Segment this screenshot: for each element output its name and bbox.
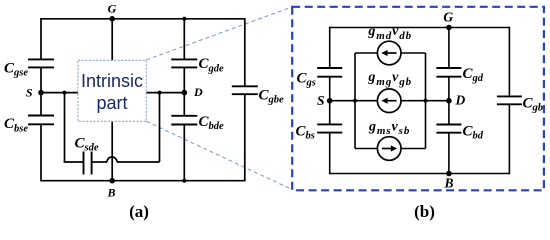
label (b) <box>414 202 435 221</box>
svg-text:(b): (b) <box>414 202 435 221</box>
wire S to box <box>41 92 78 94</box>
dashed boundary box <box>292 7 544 191</box>
wire right of (b) lower <box>508 104 510 174</box>
wire left of (a) middle segment <box>40 67 42 115</box>
svg-text:Intrinsic: Intrinsic <box>81 71 143 91</box>
current source gms vsb <box>377 137 401 161</box>
capacitor Cgs <box>317 68 342 77</box>
wire top of (a) <box>41 18 245 20</box>
label Cgbe <box>259 87 285 105</box>
wire left of (a) lower segment <box>40 124 42 181</box>
svg-text:D: D <box>193 85 203 99</box>
label Csde <box>75 135 99 153</box>
label D of (a) <box>193 85 203 99</box>
wire hop to right riser <box>117 161 160 163</box>
current source gmd vdb <box>377 41 401 65</box>
wire mid source to D <box>401 100 449 102</box>
label D of (b) <box>455 93 466 108</box>
label B of (b) <box>443 176 453 191</box>
label Cbde <box>199 114 225 132</box>
node B of (a) <box>109 178 115 184</box>
label G of (a) <box>108 2 117 16</box>
svg-text:G: G <box>443 9 453 24</box>
wire G-D column upper of (b) <box>448 28 450 69</box>
junction Csde left on S wire <box>63 91 67 95</box>
label Cgb <box>523 96 544 114</box>
label B of (a) <box>106 185 115 199</box>
junction left loop on S-D wire <box>353 99 357 103</box>
label (a) <box>129 202 149 221</box>
wire Csde right riser <box>159 93 161 162</box>
wire Csde bottom left <box>64 161 84 163</box>
label Cgd <box>463 66 484 84</box>
wire left of (b) lower <box>329 133 331 175</box>
label Cbd <box>463 124 484 142</box>
wire Cbd to bottom of (b) <box>448 133 450 174</box>
svg-text:B: B <box>443 176 453 191</box>
label Cbse <box>4 116 28 134</box>
svg-text:G: G <box>108 2 117 16</box>
label Cgse <box>4 61 28 79</box>
wire right of (a) upper segment <box>244 18 246 86</box>
label gmg vgb <box>367 70 412 88</box>
junction Csde right on D wire <box>158 91 162 95</box>
capacitor Cbs <box>317 124 342 132</box>
node B of (b) <box>446 171 452 177</box>
svg-text:D: D <box>455 93 466 108</box>
wire top branch right <box>401 52 426 54</box>
wire bottom branch right <box>401 148 426 150</box>
wire Cbde down to bottom <box>183 125 185 181</box>
wire right of (a) lower segment <box>244 94 246 181</box>
node G of (a) <box>109 16 115 22</box>
wire bottom of (a) <box>41 180 245 182</box>
wire bottom branch left <box>355 148 377 150</box>
capacitor Cgde <box>171 59 197 67</box>
capacitor Cgbe <box>232 86 258 94</box>
capacitor Cbd <box>436 125 461 133</box>
label G of (b) <box>443 9 453 24</box>
node D of (b) <box>446 98 452 104</box>
wire box to D <box>146 92 184 94</box>
capacitor Cgd <box>436 68 461 77</box>
label S of (b) <box>317 93 325 108</box>
capacitor Csde <box>84 152 92 175</box>
node S of (a) <box>38 90 44 96</box>
label Cbs <box>296 124 315 142</box>
junction top D column <box>182 17 186 21</box>
svg-text:S: S <box>317 93 325 108</box>
wire Cgd to Cbd through D <box>448 77 450 125</box>
wire Cgde to D <box>183 67 185 92</box>
connector dashed bottom <box>146 121 292 189</box>
wire inner loop left vertical <box>354 53 356 149</box>
label Cgde <box>199 56 225 74</box>
wire inner loop right vertical <box>425 53 427 149</box>
label gmd vdb <box>367 24 412 42</box>
label Cgs <box>297 70 316 88</box>
svg-text:part: part <box>96 93 127 113</box>
capacitor Cgse <box>28 59 54 67</box>
current source gmg vgb <box>377 89 401 113</box>
wire bottom of (b) <box>330 173 510 175</box>
wire hop over B line <box>107 157 117 162</box>
wire top branch left <box>355 52 377 54</box>
svg-text:S: S <box>26 86 33 100</box>
node G of (b) <box>446 25 452 31</box>
wire G stub down to intrinsic box <box>111 19 113 61</box>
label gms vsb <box>368 120 410 138</box>
junction bottom D column <box>182 179 186 183</box>
connector dashed top <box>146 7 292 60</box>
intrinsic box <box>78 60 146 121</box>
node D of (a) <box>182 90 188 96</box>
wire B stub from intrinsic box to bottom <box>111 121 113 180</box>
capacitor Cbde <box>171 116 197 125</box>
wire left of (b) middle <box>329 77 331 125</box>
wire right of (b) upper <box>508 27 510 97</box>
svg-text:B: B <box>106 185 115 199</box>
capacitor Cgb <box>497 96 522 104</box>
wire S to mid source <box>330 100 378 102</box>
wire D to Cbde <box>183 93 185 116</box>
wire Csde left drop <box>64 93 66 162</box>
capacitor Cbse <box>28 116 54 125</box>
label S of (a) <box>26 86 33 100</box>
wire D column upper <box>183 19 185 60</box>
wire left of (a) upper segment <box>40 18 42 59</box>
junction right loop on S-D wire <box>424 99 428 103</box>
wire left of (b) upper <box>329 27 331 68</box>
svg-text:(a): (a) <box>129 202 149 221</box>
wire Csde to hop <box>92 161 107 163</box>
node S of (b) <box>327 98 333 104</box>
wire top of (b) <box>330 27 510 29</box>
